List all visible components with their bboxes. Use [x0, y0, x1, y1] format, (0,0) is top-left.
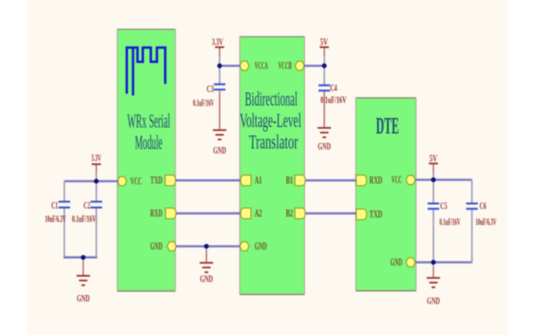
- ground G3 below C3: [213, 91, 227, 156]
- svg-text:0.1uF/16V: 0.1uF/16V: [72, 214, 96, 224]
- svg-text:VCCA: VCCA: [255, 61, 269, 72]
- svg-text:VCCB: VCCB: [278, 61, 292, 72]
- wire C1 top leg: [63, 181, 65, 202]
- wire 3.3V net to U2 VCCA: [220, 65, 241, 67]
- svg-text:GND: GND: [77, 294, 90, 304]
- svg-text:GND: GND: [255, 242, 267, 253]
- wire C3 top leg: [219, 66, 221, 85]
- svg-text:WRx Serial: WRx Serial: [127, 110, 170, 132]
- U2 pin B2: [286, 208, 305, 220]
- svg-text:VCC: VCC: [392, 175, 402, 186]
- power flag 3.3V left: [91, 153, 101, 181]
- svg-text:TXD: TXD: [369, 210, 382, 221]
- U3 pin GND: [390, 258, 415, 269]
- power flag 5V top: [320, 37, 329, 66]
- U2 pin VCCA: [240, 61, 269, 72]
- svg-text:B1: B1: [286, 176, 293, 187]
- ground G5 on U3 GND net: [427, 262, 441, 306]
- svg-text:A2: A2: [255, 209, 263, 220]
- svg-text:0.1uF/16V: 0.1uF/16V: [440, 217, 461, 227]
- U2 pin A1: [241, 175, 262, 187]
- capacitor C2: [72, 201, 102, 224]
- U1 pin VCC: [117, 177, 142, 188]
- svg-text:10uF/6.3V: 10uF/6.3V: [476, 217, 497, 227]
- wire bottom rail C1-C2: [64, 256, 98, 258]
- junction 5V/C5 on VCC rail: [431, 177, 436, 182]
- svg-text:10uF/6.3V: 10uF/6.3V: [45, 214, 66, 224]
- U2 pin VCCB: [278, 61, 304, 72]
- capacitor C5: [428, 201, 461, 227]
- capacitor C4: [319, 83, 347, 105]
- junction U3 GND rail: [431, 260, 436, 265]
- block U2 Bidirectional Voltage-Level Translator: [240, 37, 305, 295]
- svg-text:GND: GND: [213, 146, 226, 156]
- svg-text:B2: B2: [286, 209, 293, 220]
- svg-text:GND: GND: [150, 242, 162, 253]
- junction 3.3V/C3 node: [217, 63, 222, 68]
- U1 pin TXD: [150, 175, 175, 187]
- junction C1/C2 GND rail: [81, 255, 86, 260]
- block U3 DTE: [356, 98, 417, 291]
- wire U3 VCC to 5V rail: [415, 179, 472, 181]
- svg-text:Translator: Translator: [249, 132, 298, 154]
- svg-text:Voltage-Level: Voltage-Level: [240, 110, 302, 132]
- svg-text:Module: Module: [135, 132, 163, 154]
- wire C5 bottom leg: [432, 209, 434, 262]
- wire 3.3V rail to U1 VCC: [64, 180, 118, 182]
- svg-text:C5: C5: [440, 201, 447, 211]
- capacitor C3: [193, 84, 226, 108]
- waveform icon: [127, 48, 165, 96]
- svg-text:GND: GND: [200, 274, 213, 284]
- svg-text:3.3V: 3.3V: [91, 153, 101, 163]
- U3 pin RXD: [356, 175, 382, 187]
- wire U2 B1 to U3 RXD: [305, 179, 356, 181]
- block U1 WRx Serial Module: [117, 29, 175, 291]
- svg-text:C3: C3: [207, 84, 214, 94]
- wire C6 bottom right leg: [471, 209, 473, 263]
- svg-text:C2: C2: [84, 201, 91, 211]
- U3 pin TXD: [356, 209, 382, 221]
- svg-text:C4: C4: [330, 83, 337, 93]
- svg-text:GND: GND: [390, 258, 402, 269]
- U1 pin GND: [150, 242, 176, 253]
- U2 pin B1: [286, 175, 305, 187]
- wire U2 B2 to U3 TXD: [305, 212, 356, 214]
- wire C2 top leg: [95, 181, 97, 202]
- svg-text:VCC: VCC: [131, 177, 142, 188]
- svg-text:C6: C6: [480, 201, 487, 211]
- wire U2 VCCB to 5V net: [304, 65, 325, 67]
- svg-text:5V: 5V: [429, 154, 437, 164]
- svg-text:RXD: RXD: [150, 209, 162, 220]
- capacitor C6: [466, 201, 497, 227]
- svg-text:GND: GND: [427, 296, 440, 306]
- svg-text:0.1uF/16V: 0.1uF/16V: [193, 98, 215, 108]
- svg-text:3.3V: 3.3V: [212, 37, 224, 47]
- capacitor C1: [45, 201, 70, 224]
- U2 pin A2: [241, 208, 262, 220]
- ground G1 below C1/C2 rail: [77, 257, 91, 303]
- svg-text:TXD: TXD: [150, 176, 162, 187]
- wire C1 bottom leg: [63, 208, 65, 259]
- wire U1 TXD to U2 A1: [175, 179, 240, 181]
- svg-text:DTE: DTE: [376, 114, 399, 139]
- svg-text:C1: C1: [51, 201, 58, 211]
- junction GND net U1-U2: [204, 244, 209, 249]
- junction 5V/C4 node: [322, 63, 327, 68]
- svg-text:5V: 5V: [320, 37, 328, 47]
- wire U1 GND to U2 GND: [175, 245, 240, 247]
- wire U3 GND rail: [415, 261, 472, 263]
- wire C6 right leg: [471, 180, 473, 204]
- U1 pin RXD: [150, 208, 176, 220]
- wire C4 top leg: [323, 66, 325, 86]
- svg-text:Bidirectional: Bidirectional: [245, 89, 298, 111]
- power flag 3.3V top: [212, 37, 224, 66]
- wire C2 bottom leg: [95, 208, 97, 259]
- power flag 5V right: [429, 154, 438, 180]
- U2 pin GND: [240, 242, 267, 253]
- U1 title: [127, 110, 170, 154]
- U3 pin VCC: [392, 175, 416, 186]
- ground G4 below C4: [318, 92, 332, 152]
- wire U1 RXD to U2 A2: [176, 212, 241, 214]
- junction 3.3V/C2 on VCC rail: [94, 179, 99, 184]
- wire C5 top leg: [432, 180, 434, 204]
- ground G2 on U1-U2 GND net: [200, 246, 214, 283]
- svg-text:RXD: RXD: [369, 176, 382, 187]
- U2 title: [240, 89, 302, 154]
- svg-text:GND: GND: [318, 142, 331, 152]
- svg-text:A1: A1: [255, 176, 263, 187]
